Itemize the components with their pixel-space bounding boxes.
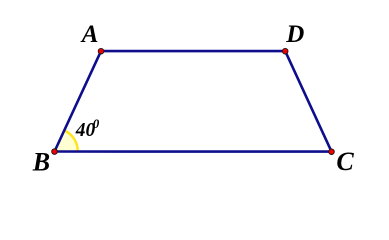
- svg-text:A: A: [80, 21, 99, 48]
- svg-text:D: D: [285, 21, 304, 48]
- svg-text:C: C: [336, 147, 354, 176]
- svg-text:B: B: [32, 147, 50, 176]
- svg-text:0: 0: [93, 116, 100, 131]
